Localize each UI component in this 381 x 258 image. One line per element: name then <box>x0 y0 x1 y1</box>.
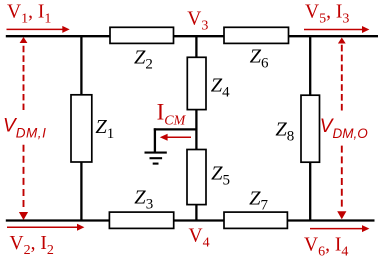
arrow I1 top-left <box>7 26 70 33</box>
resistor Z4 <box>187 57 206 109</box>
resistor Z2 <box>110 27 174 43</box>
wire bottom rail <box>6 219 375 221</box>
arrow ICM <box>160 134 191 141</box>
resistor Z3 <box>109 212 173 228</box>
wire ground tap horizontal <box>154 128 197 130</box>
resistor Z5 <box>187 150 206 205</box>
dashed arrow VDM,O right <box>337 38 346 220</box>
wire top rail <box>6 35 378 37</box>
dashed arrow VDM,I left <box>19 37 28 220</box>
resistor Z7 <box>224 212 287 228</box>
wire ground tap vertical <box>154 128 156 152</box>
resistor Z1 <box>71 95 92 162</box>
wire middle branch <box>195 36 197 221</box>
ground <box>145 153 167 164</box>
arrow I4 bottom-right <box>310 225 369 232</box>
wire left branch <box>80 36 82 221</box>
resistor Z6 <box>224 27 289 43</box>
resistor Z8 <box>301 95 320 162</box>
arrow I3 top-right <box>304 26 369 33</box>
arrow I2 bottom-left <box>7 224 84 231</box>
wire right branch <box>309 36 311 221</box>
